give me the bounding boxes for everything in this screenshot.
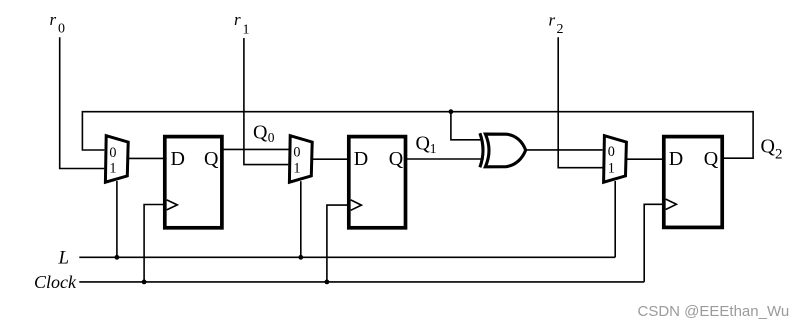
- XOR gate G1 input arc: [480, 133, 483, 167]
- label L: [58, 247, 70, 268]
- mux U3 pin label 1: [608, 161, 615, 177]
- svg-text:Q: Q: [389, 148, 404, 170]
- wire clock branch up to FF1 clock input: [144, 205, 164, 282]
- mux U2 (2-to-1): [289, 136, 312, 183]
- svg-text:r: r: [234, 10, 241, 29]
- mux U3 (2-to-1): [604, 136, 627, 183]
- svg-text:Q: Q: [204, 148, 219, 170]
- wire r0 vertical down to mux1 input 1: [60, 37, 105, 168]
- FF3 label Q: [704, 148, 719, 170]
- wire mux2 select down to L line: [300, 181, 302, 257]
- svg-text:0: 0: [293, 145, 300, 161]
- svg-text:2: 2: [557, 22, 564, 37]
- wire r1 vertical down to mux2 input 1: [244, 38, 288, 165]
- junction dot L / mux2 select: [298, 255, 303, 260]
- FF2 label Q: [389, 148, 404, 170]
- wire r2 vertical down to mux3 input 1: [558, 37, 602, 167]
- svg-text:1: 1: [608, 161, 615, 177]
- mux U1 (2-to-1): [105, 136, 128, 183]
- wire node Q0: FF1 Q output to mux2 input 0: [223, 148, 291, 150]
- wire clock branch up to FF2 clock input: [327, 205, 349, 282]
- FF2 label D: [354, 148, 368, 170]
- svg-text:Q: Q: [704, 148, 719, 170]
- svg-text:r: r: [549, 11, 556, 30]
- svg-text:D: D: [171, 148, 185, 170]
- junction dot Clock / FF1 branch: [142, 280, 147, 285]
- wire mux1 select down to L line: [116, 181, 118, 257]
- flip-flop FF1 box: [165, 137, 222, 228]
- svg-text:0: 0: [608, 144, 615, 160]
- input label r0: [50, 10, 66, 37]
- label Q0: [253, 122, 275, 145]
- wire feedback branch down to XOR top input: [451, 112, 481, 140]
- svg-text:Q: Q: [253, 122, 268, 144]
- input label r1: [234, 10, 250, 38]
- wire Q2 feedback net: FF3 Q output up over the top and down into mux1 input 0: [82, 112, 753, 159]
- wire mux1 output to FF1 D input: [127, 157, 165, 159]
- svg-text:2: 2: [775, 147, 783, 163]
- wire Clock horizontal line: [79, 281, 644, 283]
- svg-text:D: D: [669, 148, 683, 170]
- wire mux3 select down to L line end: [614, 181, 616, 257]
- mux U3 pin label 0: [608, 144, 615, 160]
- svg-text:1: 1: [243, 23, 250, 38]
- svg-text:Clock: Clock: [34, 272, 77, 292]
- FF3 label D: [669, 148, 683, 170]
- FF1 label D: [171, 148, 185, 170]
- FF1 clock triangle: [167, 200, 178, 210]
- flip-flop FF3 box: [664, 137, 722, 228]
- wire node Q1: FF2 Q output to XOR bottom input: [407, 158, 484, 160]
- wire mux2 output to FF2 D input: [311, 158, 349, 160]
- label Q2: [761, 136, 783, 163]
- mux U1 pin label 1: [109, 161, 116, 177]
- mux U2 pin label 0: [293, 145, 300, 161]
- junction dot Clock / FF2 branch: [325, 280, 330, 285]
- svg-text:0: 0: [268, 130, 275, 145]
- svg-text:0: 0: [109, 145, 116, 161]
- svg-text:1: 1: [293, 161, 300, 177]
- svg-text:Q: Q: [761, 136, 776, 158]
- FF1 label Q: [204, 148, 219, 170]
- wire mux3 output to FF3 D input: [625, 158, 663, 160]
- svg-text:1: 1: [109, 161, 116, 177]
- svg-text:CSDN @EEEthan_Wu: CSDN @EEEthan_Wu: [638, 303, 790, 320]
- svg-text:Q: Q: [416, 133, 431, 155]
- svg-text:1: 1: [430, 141, 437, 156]
- FF3 clock triangle: [666, 199, 677, 209]
- wire L horizontal line: [79, 256, 615, 258]
- FF2 clock triangle: [351, 200, 362, 210]
- wire XOR output to mux3 input 0: [524, 149, 602, 151]
- label Q1: [416, 133, 437, 157]
- wire clock end up to FF3 clock input: [644, 204, 663, 282]
- mux U1 pin label 0: [109, 145, 116, 161]
- junction dot L / mux1 select: [115, 255, 120, 260]
- XOR gate G1 body: [485, 134, 525, 167]
- svg-text:r: r: [50, 10, 57, 29]
- input label r2: [549, 11, 564, 38]
- svg-text:D: D: [354, 148, 368, 170]
- flip-flop FF2 box: [349, 137, 406, 228]
- junction dot on feedback line at XOR branch: [449, 109, 454, 114]
- svg-text:L: L: [58, 247, 70, 268]
- mux U2 pin label 1: [293, 161, 300, 177]
- label Clock: [34, 272, 77, 292]
- svg-text:0: 0: [58, 22, 65, 37]
